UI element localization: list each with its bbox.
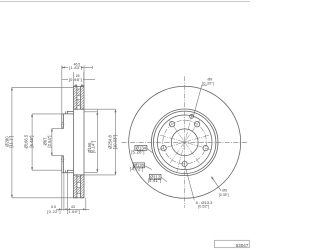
svg-text:[0.98"]: [0.98"] xyxy=(69,77,83,82)
svg-text:[4.72"]: [4.72"] xyxy=(130,167,143,172)
svg-text:[0.35"]: [0.35"] xyxy=(219,193,229,197)
svg-text:[10.03"]: [10.03"] xyxy=(112,135,117,149)
svg-text:Ø166.5: Ø166.5 xyxy=(24,134,29,148)
svg-text:63047: 63047 xyxy=(236,243,249,248)
svg-text:[0.52"]: [0.52"] xyxy=(198,204,209,208)
svg-text:[1.83"]: [1.83"] xyxy=(69,65,83,70)
svg-text:[0.22"]: [0.22"] xyxy=(47,209,61,214)
svg-text:[6.14"]: [6.14"] xyxy=(90,141,95,153)
svg-text:[6.48"]: [6.48"] xyxy=(29,136,34,148)
svg-text:[1.69"]: [1.69"] xyxy=(67,209,81,214)
svg-text:[11.1"]: [11.1"] xyxy=(9,136,14,148)
svg-text:[2.64"]: [2.64"] xyxy=(47,136,52,148)
svg-text:[0.35"]: [0.35"] xyxy=(202,81,214,85)
